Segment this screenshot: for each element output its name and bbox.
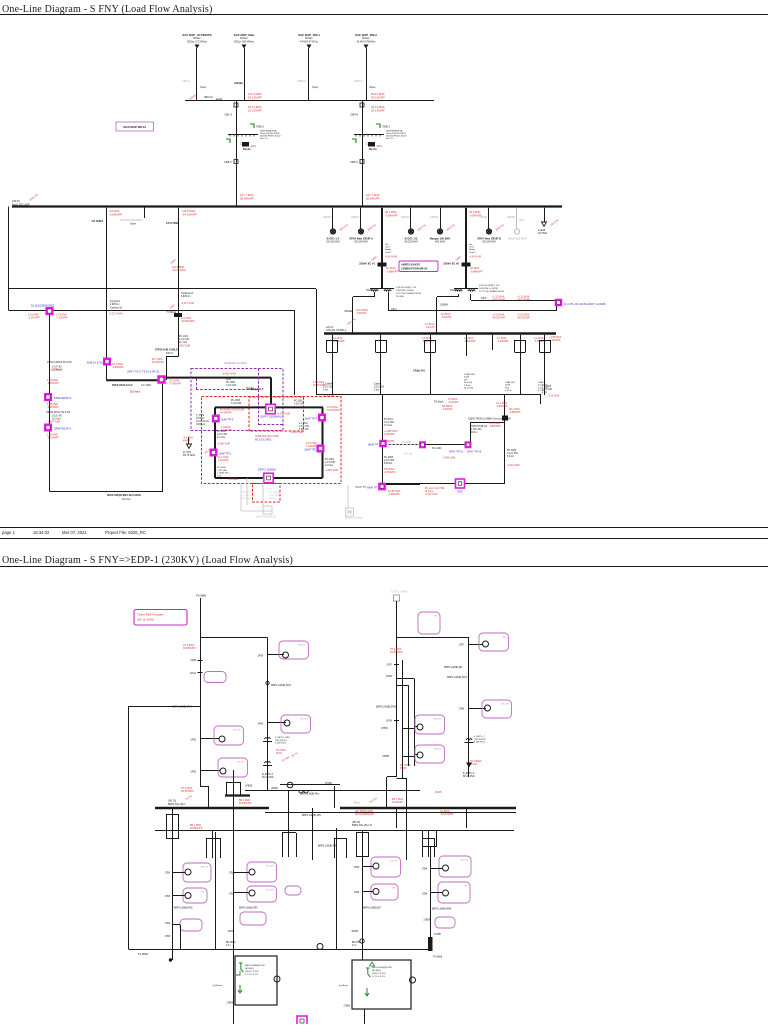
wire gen B-GE1-1 B — [410, 208, 412, 229]
transformer tap TY-6D2a — [174, 313, 182, 317]
ring bottom — [215, 477, 323, 479]
stub x493 — [492, 335, 494, 350]
svg-text:-0.43 %VM: -0.43 %VM — [469, 256, 481, 259]
svg-text:CB40-2: CB40-2 — [354, 79, 363, 83]
motor RA — [274, 976, 280, 982]
svg-text:-0.88%/PF: -0.88%/PF — [496, 405, 508, 408]
stub Cable6 right — [540, 395, 542, 404]
relay green RA — [239, 963, 243, 972]
svg-text:13.77%/37 MVA/55.08 HZ: 13.77%/37 MVA/55.08 HZ — [396, 292, 422, 295]
svg-text:11.77%/37 MVA/55.08 HZ: 11.77%/37 MVA/55.08 HZ — [479, 290, 505, 293]
breaker staple x430 — [424, 340, 426, 352]
svg-text:-0.88%/PF: -0.88%/PF — [509, 411, 521, 414]
svg-text:EOP: EOP — [457, 491, 463, 494]
svg-text:8.188 F1d): 8.188 F1d) — [275, 743, 286, 745]
svg-text:B8-T08: B8-T08 — [237, 762, 245, 764]
svg-text:Cable6: Cable6 — [374, 384, 382, 386]
svg-text:DPGO-3PG5 3b.5 6V: DPGO-3PG5 3b.5 6V — [47, 360, 72, 364]
svg-text:25.025 MVA: 25.025 MVA — [404, 241, 418, 244]
svg-text:(Ly)4kxxx: (Ly)4kxxx — [339, 985, 349, 987]
svg-text:SFNY TP-21: SFNY TP-21 — [449, 451, 464, 454]
svg-text:5b-b.2d): 5b-b.2d) — [464, 382, 472, 384]
motor room R1 — [317, 944, 323, 950]
svg-text:17B0: 17B0 — [165, 873, 171, 875]
callout motor R2 — [371, 884, 398, 900]
svg-text:PL/M: PL/M — [276, 752, 282, 755]
motor tie top — [287, 782, 293, 788]
svg-text:17B8: 17B8 — [165, 936, 171, 938]
svg-text:4%/PF: 4%/PF — [183, 440, 191, 443]
svg-text:17B8: 17B8 — [422, 894, 428, 896]
svg-text:B8PS-L08(B)-(B7: B8PS-L08(B)-(B7 — [363, 908, 382, 910]
bus aux 480V b — [389, 310, 557, 312]
svg-text:29.13%/PF: 29.13%/PF — [248, 95, 262, 99]
feeder T4 — [468, 638, 470, 762]
svg-text:B8-T08: B8-T08 — [434, 719, 442, 721]
svg-text:1002/230 (13.8kV): 1002/230 (13.8kV) — [396, 290, 414, 292]
wire source SAF BSP_ULTIMATE to bus BSP — [196, 48, 198, 101]
svg-text:3-1)/C 500: 3-1)/C 500 — [507, 453, 519, 455]
svg-text:-84.02%/PF: -84.02%/PF — [517, 299, 531, 302]
svg-text:-64.61%/PF: -64.61%/PF — [182, 212, 197, 216]
svg-text:2021yr 199 MVAsc: 2021yr 199 MVAsc — [234, 40, 255, 43]
callout motor M6 — [482, 700, 512, 718]
svg-text:17B7: 17B7 — [458, 644, 464, 647]
svg-text:1P0B: 1P0B — [386, 675, 392, 678]
callout spare R5 — [435, 917, 455, 928]
svg-text:29.13%/PF: 29.13%/PF — [248, 108, 262, 112]
zone ACME TPGB inner v — [258, 369, 260, 426]
svg-text:(B km: (B km — [269, 498, 275, 500]
transformer X_8875-1 — [265, 738, 271, 740]
svg-text:1 Cable6: 1 Cable6 — [542, 386, 552, 388]
svg-text:PS-34B: PS-34B — [396, 296, 404, 298]
switch 7808-1 — [376, 124, 380, 128]
svg-text:230kV I/C #2: 230kV I/C #2 — [443, 262, 459, 266]
wire gen 40kaF 200 MVA — [516, 208, 518, 229]
switch bank CB1-3 — [226, 139, 230, 143]
staple x334 a — [334, 838, 336, 858]
callout motor R3 — [439, 856, 471, 877]
feeder RA down — [233, 1005, 235, 1024]
svg-text:Run! 2.5: Run! 2.5 — [260, 138, 269, 140]
fuse dips — [299, 791, 308, 793]
wire UTL drop — [556, 305, 558, 311]
svg-text:C6 SUB2: C6 SUB2 — [92, 219, 104, 223]
relay green RB — [366, 968, 370, 977]
svg-text:B8PS-L08(B)-(P80: B8PS-L08(B)-(P80 — [432, 909, 452, 911]
wire PC-6071 feeder — [382, 395, 384, 484]
svg-text:Bus5 SEC BSP: Bus5 SEC BSP — [12, 202, 30, 206]
svg-text:-0.3%/PF: -0.3%/PF — [441, 316, 452, 319]
svg-text:3-1/C 600: 3-1/C 600 — [374, 387, 385, 389]
svg-text:-1.19%/PF: -1.19%/PF — [56, 317, 68, 320]
wire to EDP joint — [470, 422, 505, 424]
svg-text:B8PS-SSL-(B)-1 B: B8PS-SSL-(B)-1 B — [352, 824, 372, 827]
wire source SAF BSP_Man to bus BSP — [244, 48, 246, 101]
tie TP-21 — [419, 441, 426, 448]
svg-text:R1/PF: R1/PF — [435, 791, 442, 794]
switchgear EDP-1 — [266, 404, 276, 414]
motor M4 — [284, 720, 290, 726]
stub M7 — [403, 728, 415, 730]
svg-text:7808-1: 7808-1 — [382, 125, 391, 129]
svg-text:4PC-06? 8a: 4PC-06? 8a — [242, 492, 254, 494]
svg-text:P1-0808: P1-0808 — [433, 956, 443, 959]
svg-text:94.08%/PF: 94.08%/PF — [239, 802, 252, 805]
svg-text:Lines2: Lines2 — [469, 252, 476, 254]
tie 2kAF TP-1 — [210, 449, 218, 457]
svg-text:11.8 km: 11.8 km — [425, 491, 433, 493]
svg-text:-0.18%/PF: -0.18%/PF — [47, 406, 59, 409]
wire T1 west branch — [129, 706, 200, 708]
svg-text:-0.94%/PF: -0.94%/PF — [464, 340, 476, 343]
feeder T2 — [267, 638, 269, 792]
svg-text:One-Line Diagram - S FNY (: One-Line Diagram - S FNY (Load Flow Anal… — [2, 4, 213, 15]
utility source SAF BSP_Win1 — [307, 45, 312, 49]
svg-text:-462 %1M: -462 %1M — [179, 345, 190, 348]
svg-text:One-Line Diagram - S FNY=>: One-Line Diagram - S FNY=>EDP-1 (230KV) … — [2, 555, 293, 566]
tie 2kAF TP-3 — [212, 415, 220, 423]
svg-text:94.08%/PF: 94.08%/PF — [190, 827, 203, 830]
callout mini L7 — [285, 886, 301, 895]
staple x289 — [282, 833, 284, 857]
svg-text:-0.157 %1M: -0.157 %1M — [425, 494, 437, 496]
wire motor tie — [280, 784, 340, 786]
svg-text:20 MVA: 20 MVA — [538, 231, 547, 235]
callout motor R1 — [371, 857, 401, 877]
svg-text:CR(a) 301-5: CR(a) 301-5 — [249, 387, 264, 391]
svg-text:X_8875-_2: X_8875-_2 — [474, 736, 485, 738]
relay green RA2 — [236, 971, 240, 975]
label box ANPEX 410KP1 — [399, 261, 438, 272]
svg-text:1.1?0.1 4.1%: 1.1?0.1 4.1% — [372, 976, 385, 978]
svg-text:(1) UTL-01 AUXILIARY LOADS: (1) UTL-01 AUXILIARY LOADS — [564, 302, 606, 306]
svg-text:COMBUSTION MR-05: COMBUSTION MR-05 — [401, 267, 428, 271]
svg-text:CB16E: CB16E — [344, 310, 352, 313]
svg-text:(29L/508 1D: (29L/508 1D — [275, 740, 287, 742]
svg-text:B8PS-L8(M)(R)-P80: B8PS-L8(M)(R)-P80 — [245, 965, 265, 967]
callout motor L1 — [183, 863, 211, 882]
svg-text:SFNY T9-17,T9-19 & 9P-20: SFNY T9-17,T9-19 & 9P-20 — [127, 370, 159, 374]
svg-text:3 km: 3 km — [374, 390, 379, 392]
svg-text:94.35%/PF: 94.35%/PF — [390, 650, 403, 654]
wire gen SFNY New GEHP B — [488, 208, 490, 229]
svg-text:-0.3%/PF: -0.3%/PF — [448, 401, 459, 404]
tie SUB-10 SUB-9 — [103, 358, 111, 366]
motor L2 — [185, 893, 191, 899]
svg-text:Open: Open — [200, 85, 207, 89]
svg-text:1P08: 1P08 — [190, 659, 196, 662]
motor L4 — [249, 869, 255, 875]
svg-text:-0.09%/PF: -0.09%/PF — [469, 213, 482, 217]
svg-text:3-1/C 500: 3-1/C 500 — [384, 422, 395, 424]
svg-text:(B.1m.(M: (B.1m.(M — [464, 388, 473, 390]
svg-text:19.2 km: 19.2 km — [122, 498, 131, 501]
svg-text:3-1/C 600: 3-1/C 600 — [323, 387, 334, 389]
motor M1 — [219, 736, 225, 742]
stub motor M7 — [414, 726, 418, 728]
footer rule p1 — [0, 527, 768, 529]
feeder T4 ext — [468, 762, 470, 777]
tie bottom edge — [297, 1016, 307, 1026]
svg-text:-0.271 %VW: -0.271 %VW — [109, 313, 123, 316]
feeder x312 — [312, 808, 314, 860]
svg-text:-4.98%/PF: -4.98%/PF — [388, 493, 400, 496]
svg-text:B8PS-L08(B)-P80: B8PS-L08(B)-P80 — [239, 908, 258, 910]
ground T4 — [466, 763, 472, 768]
svg-text:CB6-6: CB6-6 — [224, 160, 232, 164]
svg-text:6TP20 SUB CABLE: 6TP20 SUB CABLE — [155, 349, 178, 352]
motor R2 — [373, 889, 379, 895]
svg-text:28.69%/PF: 28.69%/PF — [366, 196, 380, 200]
svg-text:1P080: 1P080 — [351, 931, 358, 933]
svg-text:-64.84%/PF: -64.84%/PF — [181, 319, 195, 323]
staple x234 a — [226, 782, 228, 796]
callout motor M1 — [214, 726, 244, 745]
callout motor M5 — [479, 633, 509, 651]
svg-text:-0.052 %1M: -0.052 %1M — [325, 469, 338, 472]
svg-text:(B.1 dm: (B.1 dm — [242, 498, 250, 500]
wire SFNY TP-21 run — [383, 444, 470, 446]
wire tie row y791 — [245, 790, 420, 792]
room RA — [235, 956, 277, 1005]
stub C6 TR26 — [144, 207, 146, 219]
bus bank CB4-9 — [354, 134, 384, 136]
svg-text:B8-/P80: B8-/P80 — [352, 942, 361, 944]
wire R_STN — [188, 437, 190, 444]
stub CB(a) 401 — [466, 335, 468, 356]
svg-text:PC-xxxx 3-1/C 500: PC-xxxx 3-1/C 500 — [425, 488, 445, 490]
zone ACME TPGB inner h — [259, 424, 283, 426]
svg-text:44.04%/PF: 44.04%/PF — [220, 412, 232, 415]
svg-text:5.6 km: 5.6 km — [507, 456, 514, 458]
motor M7 — [417, 724, 423, 730]
svg-text:29.13%/PF: 29.13%/PF — [371, 95, 385, 99]
callout motor L4 — [247, 862, 277, 882]
wire motor branch 1 — [200, 738, 219, 740]
svg-text:4.825 km: 4.825 km — [110, 304, 120, 306]
feeder column x430 — [430, 335, 432, 395]
svg-text:6BPS-L08(B)-(P08: 6BPS-L08(B)-(P08 — [376, 706, 397, 709]
zone ACME TPGB left v — [196, 378, 198, 389]
svg-text:-84.02%/PF: -84.02%/PF — [492, 299, 506, 302]
zone ACME TPGB left h — [196, 389, 259, 391]
svg-text:B8PS-L08(B)-P80: B8PS-L08(B)-P80 — [174, 908, 193, 910]
feeder column C2 — [233, 770, 235, 1024]
svg-text:1P07: 1P07 — [386, 664, 392, 667]
svg-text:48(1%(M)(B)(M)%: 48(1%(M)(B)(M)% — [355, 813, 375, 816]
wire T1 to bus — [208, 787, 210, 809]
staple x428 — [422, 838, 424, 857]
svg-text:CR(a) 401: CR(a) 401 — [413, 369, 426, 373]
svg-text:PC-0001: PC-0001 — [325, 459, 335, 461]
svg-text:BSP: BSP — [216, 98, 222, 102]
svg-text:M1 (LT) LOADS: M1 (LT) LOADS — [255, 439, 272, 442]
svg-text:B6PS-SSL-(B)-1: B6PS-SSL-(B)-1 — [168, 803, 186, 806]
wire loop B top — [9, 310, 295, 312]
svg-text:k4aR: k4aR — [464, 377, 470, 379]
svg-text:Bus1a: Bus1a — [369, 148, 377, 151]
staple x213 — [206, 838, 208, 858]
wire lower distribution bus — [316, 394, 541, 396]
svg-text:(B0 B04): (B0 B04) — [372, 970, 381, 972]
wire EDSP feeder left — [49, 315, 51, 491]
title underline p2 — [0, 566, 768, 568]
svg-text:B8-T08: B8-T08 — [266, 890, 274, 892]
svg-text:(SB)1x: (SB)1x — [353, 803, 361, 805]
wire T3-T4 link — [397, 637, 470, 639]
svg-text:1P08: 1P08 — [190, 771, 196, 774]
wire gen Margan 100 MVA — [440, 208, 442, 229]
wire CB4-9 feeder — [362, 101, 364, 207]
motor R4 — [443, 890, 449, 896]
tie UTL-01 — [555, 299, 563, 307]
svg-text:C8046 TPGB LLV(BBkV (kon junxE: C8046 TPGB LLV(BBkV (kon junxE [EDP] — [468, 419, 511, 421]
wire source SAF BSP_Win1 to bus BSP — [308, 48, 310, 101]
svg-text:5.8 dm: 5.8 dm — [464, 385, 471, 387]
svg-text:-0.111 %1M: -0.111 %1M — [507, 464, 520, 467]
utility source SAF BSP_Win2 — [364, 45, 369, 49]
svg-text:1P08: 1P08 — [257, 655, 263, 658]
wire L jog — [180, 925, 182, 950]
svg-text:17B0: 17B0 — [165, 923, 171, 925]
tie SFNF-EDSP-3 — [44, 393, 52, 401]
svg-text:17B8: 17B8 — [354, 892, 360, 894]
svg-text:17B08: 17B08 — [226, 1003, 233, 1005]
svg-text:17B0B: 17B0B — [382, 756, 389, 758]
tie DL SEIKOKE — [45, 307, 53, 315]
svg-text:STS-001 SS 690 a: STS-001 SS 690 a — [326, 329, 347, 332]
svg-text:-0.592 %VM: -0.592 %VM — [222, 373, 236, 376]
svg-text:Lines2: Lines2 — [385, 252, 392, 254]
breaker T1 b — [198, 672, 203, 674]
svg-text:230 kV: 230 kV — [12, 199, 20, 203]
svg-text:B8-T08: B8-T08 — [501, 704, 509, 706]
wire T1-T2 link — [200, 637, 268, 639]
source box T3 — [394, 595, 400, 601]
wire T3 leg b — [396, 808, 398, 828]
svg-text:14.9 km: 14.9 km — [325, 465, 333, 467]
svg-text:7806-1: 7806-1 — [256, 125, 265, 129]
svg-text:(B0 B04): (B0 B04) — [245, 968, 254, 970]
svg-text:-0.19 %1M: -0.19 %1M — [323, 396, 334, 398]
wire west boundary — [128, 706, 130, 950]
svg-text:ACME WL-12-4EDI: ACME WL-12-4EDI — [224, 361, 247, 365]
svg-text:(5.5 km): (5.5 km) — [130, 390, 140, 394]
relay green RB2 — [370, 962, 375, 966]
svg-text:-0.88%/PF: -0.88%/PF — [386, 269, 399, 273]
svg-text:-0.09%/PF: -0.09%/PF — [385, 213, 398, 217]
motor R1 — [373, 863, 379, 869]
motor R3 — [443, 865, 449, 871]
wire T3 right leg — [406, 779, 408, 860]
generator 40kaF 200 MVA — [514, 229, 519, 234]
bus aux 480V a — [471, 300, 556, 302]
svg-text:-29%: -29% — [250, 145, 257, 148]
svg-text:0.026 %1M: 0.026 %1M — [443, 457, 455, 460]
svg-text:SFE3-SS12-10 kV: SFE3-SS12-10 kV — [112, 384, 133, 387]
svg-text:-14.67%/PF: -14.67%/PF — [440, 812, 454, 816]
terminal dot — [169, 958, 172, 961]
feeder column C3 — [362, 831, 364, 961]
svg-text:C046 TPGB (LV: C046 TPGB (LV — [471, 426, 488, 428]
svg-text:30 MVA: 30 MVA — [196, 417, 204, 420]
stub M8 — [403, 756, 415, 758]
svg-text:-29%: -29% — [376, 145, 383, 148]
svg-text:94.2%/PF: 94.2%/PF — [392, 801, 403, 804]
tie kRaF TP-31 — [379, 440, 387, 448]
svg-text:SFE2-SS5(E1)8kV 3E CABLE: SFE2-SS5(E1)8kV 3E CABLE — [107, 494, 141, 497]
svg-text:PC-6071: PC-6071 — [384, 419, 394, 421]
wire SFNY TP-17 feeder b — [163, 377, 271, 379]
svg-text:STGO1_8WPS: STGO1_8WPS — [391, 591, 408, 594]
feeder column x545 — [544, 335, 546, 395]
ring top — [215, 406, 323, 408]
wire mid column b — [408, 685, 410, 766]
bus B6PS-SSL left — [155, 807, 269, 809]
callout motor L2 — [183, 888, 207, 903]
zone ACME TPGB outer — [191, 369, 283, 431]
tie TP-16 — [465, 441, 472, 448]
svg-text:PC-3209: PC-3209 — [507, 450, 517, 452]
wire source SAF BSP_Win2 to bus BSP — [366, 48, 368, 101]
svg-text:page 1: page 1 — [2, 530, 15, 535]
svg-text:Open: Open — [312, 85, 319, 89]
svg-text:-0.03%/PF: -0.03%/PF — [47, 437, 59, 440]
svg-text:29.13%/PF: 29.13%/PF — [371, 108, 385, 112]
svg-text:B8-T08: B8-T08 — [266, 866, 274, 868]
svg-text:kRaF TP: kRaF TP — [367, 487, 377, 490]
wire bottom cable run — [50, 491, 164, 493]
callout spare L6 — [240, 912, 266, 925]
zone EDP ring outer — [202, 397, 342, 484]
tie kRaF TP-30 — [378, 483, 386, 491]
svg-text:PL/M: PL/M — [400, 767, 406, 770]
svg-text:44 MV3 97 M7sc: 44 MV3 97 M7sc — [300, 40, 319, 43]
svg-text:TE-block: TE-block — [434, 401, 444, 404]
svg-text:94.35%/PF: 94.35%/PF — [183, 646, 196, 650]
svg-text:PS-0880: PS-0880 — [196, 594, 207, 598]
wire TP to EOP run — [386, 484, 420, 486]
bus 121 LV BUS2 — [324, 332, 556, 334]
motor M2 — [220, 768, 226, 774]
svg-text:25.025 MVA: 25.025 MVA — [482, 241, 496, 244]
footer rule2 p1 — [0, 538, 768, 540]
bus Bus5 SEC BSP 230kV — [12, 205, 562, 207]
svg-text:1P08x: 1P08x — [227, 931, 234, 933]
svg-text:X_8875-1 3/8%: X_8875-1 3/8% — [275, 737, 290, 739]
breaker T1 a — [198, 660, 203, 662]
transformer tap 230kV I/C #2 — [462, 263, 471, 267]
svg-text:P1-4B08: P1-4B08 — [138, 953, 148, 956]
svg-text:1-3/C 632: 1-3/C 632 — [226, 385, 237, 387]
wire C6 SUB2 feeder — [106, 208, 108, 380]
svg-text:-0.88%/PF: -0.88%/PF — [470, 269, 483, 273]
wire gen SFNY New GEHP A — [360, 208, 362, 229]
svg-text:6BPS-L08(B)-(B1: 6BPS-L08(B)-(B1 — [444, 666, 463, 669]
staple x234 b — [240, 782, 242, 796]
svg-text:DL [(L(2)SEIKOKE]: DL [(L(2)SEIKOKE] — [31, 304, 54, 308]
tie 2kAF TP-4 — [318, 414, 326, 422]
svg-text:Open: Open — [130, 223, 137, 226]
callout motor M8 — [415, 745, 445, 763]
svg-text:380 kV: 380 kV — [204, 95, 213, 99]
svg-text:1/C 1000: 1/C 1000 — [141, 384, 151, 387]
wire tie row y830 — [155, 830, 514, 832]
svg-text:1P80B: 1P80B — [245, 785, 253, 788]
wire PC-3209 feeder — [504, 395, 506, 484]
